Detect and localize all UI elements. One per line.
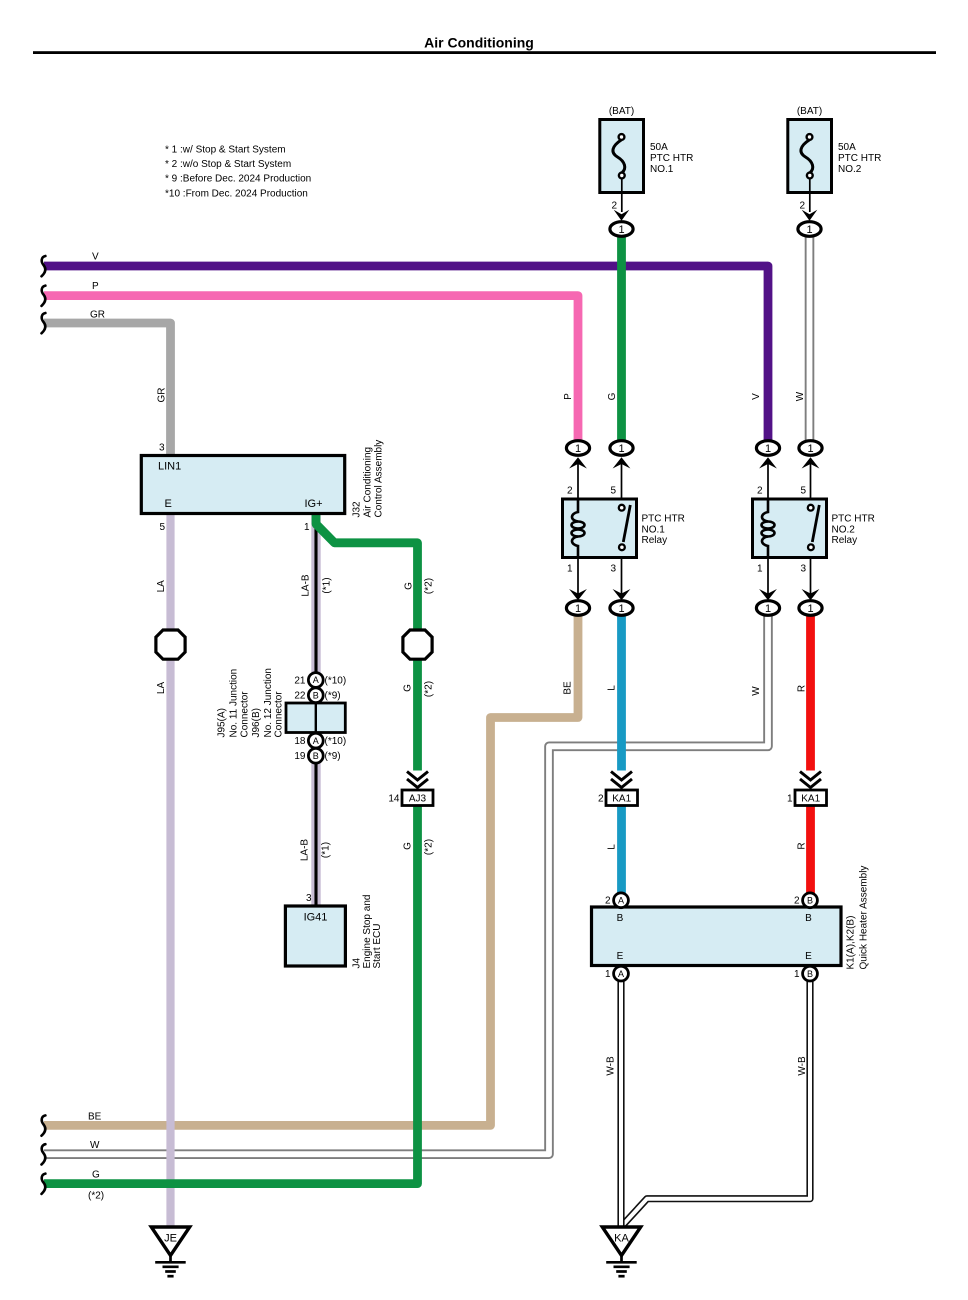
svg-text:PTC HTR: PTC HTR: [650, 153, 693, 164]
svg-text:A: A: [618, 896, 624, 906]
svg-text:PTC HTR: PTC HTR: [838, 153, 881, 164]
svg-text:1: 1: [304, 522, 310, 533]
svg-text:J4: J4: [351, 958, 362, 969]
svg-text:2: 2: [567, 485, 573, 496]
svg-text:14: 14: [388, 794, 400, 805]
svg-text:L: L: [607, 844, 618, 850]
svg-text:(*2): (*2): [424, 578, 435, 594]
svg-text:(*10): (*10): [325, 676, 347, 687]
svg-text:Air Conditioning: Air Conditioning: [363, 447, 374, 518]
svg-text:G: G: [403, 842, 414, 850]
svg-text:B: B: [313, 751, 319, 761]
svg-text:P: P: [563, 393, 574, 400]
svg-text:W: W: [751, 686, 762, 696]
svg-text:KA1: KA1: [801, 794, 820, 805]
svg-text:(*2): (*2): [424, 681, 435, 697]
svg-text:1: 1: [757, 564, 763, 575]
svg-text:GR: GR: [157, 388, 168, 403]
svg-text:1: 1: [794, 969, 800, 980]
svg-text:1: 1: [765, 603, 771, 615]
svg-text:50A: 50A: [838, 142, 856, 153]
svg-text:18: 18: [294, 736, 306, 747]
svg-text:(*1): (*1): [322, 577, 333, 593]
svg-text:No. 11 Junction: No. 11 Junction: [229, 669, 240, 738]
svg-text:GR: GR: [90, 310, 105, 321]
svg-text:J96(B): J96(B): [251, 708, 262, 737]
svg-text:B: B: [807, 969, 813, 979]
svg-text:5: 5: [159, 522, 165, 533]
svg-text:Air Conditioning: Air Conditioning: [424, 35, 534, 51]
svg-text:2: 2: [757, 485, 763, 496]
svg-text:KA: KA: [614, 1233, 629, 1245]
svg-text:* 2 :w/o Stop & Start System: * 2 :w/o Stop & Start System: [165, 159, 291, 170]
svg-text:1: 1: [618, 603, 624, 615]
svg-text:B: B: [617, 913, 624, 924]
svg-text:(*10): (*10): [325, 736, 347, 747]
svg-text:B: B: [805, 913, 812, 924]
svg-text:(*1): (*1): [321, 842, 332, 858]
svg-text:G: G: [607, 392, 618, 400]
svg-text:*10 :From Dec. 2024 Production: *10 :From Dec. 2024 Production: [165, 188, 308, 199]
svg-text:A: A: [313, 675, 319, 685]
svg-text:1: 1: [575, 603, 581, 615]
svg-text:W-B: W-B: [797, 1056, 808, 1076]
svg-text:KA1: KA1: [612, 794, 631, 805]
svg-text:3: 3: [306, 893, 312, 904]
svg-text:K1(A),K2(B): K1(A),K2(B): [846, 916, 857, 970]
svg-text:J32: J32: [352, 501, 363, 518]
svg-text:W-B: W-B: [605, 1056, 616, 1076]
svg-text:5: 5: [610, 485, 616, 496]
svg-text:(*2): (*2): [88, 1191, 104, 1202]
svg-text:A: A: [618, 969, 624, 979]
svg-text:22: 22: [294, 691, 306, 702]
svg-text:21: 21: [294, 676, 306, 687]
svg-text:LIN1: LIN1: [158, 461, 181, 473]
svg-text:W: W: [90, 1140, 100, 1151]
svg-text:1: 1: [618, 443, 624, 455]
svg-text:AJ3: AJ3: [409, 794, 427, 805]
svg-text:G: G: [92, 1170, 100, 1181]
svg-text:1: 1: [806, 224, 812, 236]
svg-text:No. 12 Junction: No. 12 Junction: [263, 668, 274, 738]
svg-text:Connector: Connector: [240, 691, 251, 738]
svg-text:E: E: [617, 951, 624, 962]
svg-text:G: G: [403, 684, 414, 692]
svg-text:2: 2: [598, 794, 604, 805]
svg-text:5: 5: [800, 485, 806, 496]
svg-text:1: 1: [807, 443, 813, 455]
svg-text:G: G: [404, 582, 415, 590]
svg-text:NO.2: NO.2: [832, 524, 856, 535]
svg-text:1: 1: [787, 794, 793, 805]
svg-text:B: B: [313, 690, 319, 700]
svg-text:LA: LA: [156, 682, 167, 695]
svg-text:NO.1: NO.1: [642, 524, 666, 535]
svg-text:(*2): (*2): [424, 839, 435, 855]
svg-text:1: 1: [765, 443, 771, 455]
svg-text:W: W: [795, 391, 806, 401]
svg-text:Quick Heater Assembly: Quick Heater Assembly: [859, 866, 870, 970]
svg-text:PTC HTR: PTC HTR: [832, 514, 875, 525]
svg-text:Control Assembly: Control Assembly: [373, 440, 384, 518]
svg-text:3: 3: [159, 443, 165, 454]
svg-text:IG41: IG41: [304, 912, 328, 924]
svg-text:L: L: [607, 685, 618, 691]
svg-text:2: 2: [611, 201, 617, 212]
svg-text:1: 1: [605, 969, 611, 980]
svg-text:JE: JE: [164, 1233, 177, 1245]
svg-text:50A: 50A: [650, 142, 668, 153]
svg-text:(*9): (*9): [325, 691, 341, 702]
svg-text:Relay: Relay: [832, 535, 858, 546]
svg-text:LA-B: LA-B: [300, 839, 311, 862]
svg-text:NO.2: NO.2: [838, 164, 862, 175]
svg-text:P: P: [92, 281, 99, 292]
svg-text:* 9 :Before Dec. 2024 Producti: * 9 :Before Dec. 2024 Production: [165, 174, 311, 185]
svg-text:V: V: [751, 393, 762, 400]
svg-text:(BAT): (BAT): [609, 106, 634, 117]
svg-text:(*9): (*9): [325, 751, 341, 762]
svg-text:BE: BE: [563, 681, 574, 695]
svg-text:A: A: [313, 736, 319, 746]
svg-text:E: E: [165, 498, 172, 510]
svg-text:3: 3: [800, 564, 806, 575]
svg-text:V: V: [92, 252, 99, 263]
svg-text:IG+: IG+: [305, 498, 323, 510]
svg-text:R: R: [797, 685, 808, 692]
svg-text:2: 2: [605, 896, 611, 907]
svg-text:LA: LA: [156, 580, 167, 593]
svg-text:3: 3: [610, 564, 616, 575]
svg-text:1: 1: [567, 564, 573, 575]
svg-text:Relay: Relay: [642, 535, 668, 546]
svg-text:2: 2: [794, 896, 800, 907]
svg-text:1: 1: [618, 224, 624, 236]
svg-text:(BAT): (BAT): [797, 106, 822, 117]
svg-text:NO.1: NO.1: [650, 164, 674, 175]
svg-text:1: 1: [807, 603, 813, 615]
svg-text:1: 1: [575, 443, 581, 455]
svg-text:2: 2: [799, 201, 805, 212]
svg-text:Connector: Connector: [274, 691, 285, 738]
svg-text:B: B: [807, 896, 813, 906]
svg-text:BE: BE: [88, 1112, 102, 1123]
svg-text:LA-B: LA-B: [301, 574, 312, 597]
svg-text:J95(A): J95(A): [217, 708, 228, 737]
svg-text:E: E: [805, 951, 812, 962]
svg-text:19: 19: [294, 751, 306, 762]
svg-text:R: R: [797, 842, 808, 849]
svg-text:PTC HTR: PTC HTR: [642, 514, 685, 525]
svg-text:* 1 :w/ Stop & Start System: * 1 :w/ Stop & Start System: [165, 145, 286, 156]
svg-text:Start ECU: Start ECU: [372, 923, 383, 968]
